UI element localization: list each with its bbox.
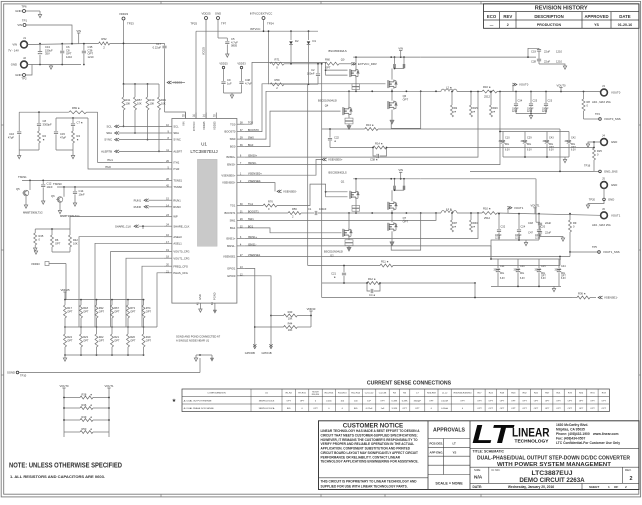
bootstrap capacitors xyxy=(394,179,396,190)
svg-text:0.001: 0.001 xyxy=(326,400,332,402)
svg-text:VERIFY PROPER AND RELIABLE OPE: VERIFY PROPER AND RELIABLE OPERATION IN … xyxy=(321,442,415,446)
diode D2 xyxy=(290,31,292,40)
svg-text:C29: C29 xyxy=(527,137,532,140)
svg-text:SDA: SDA xyxy=(173,131,179,135)
svg-text:TP1: TP1 xyxy=(22,19,28,23)
svg-text:R8: R8 xyxy=(587,100,591,104)
svg-text:C43: C43 xyxy=(549,137,554,140)
svg-text:GPIO0B: GPIO0B xyxy=(245,351,255,355)
ground xyxy=(226,54,229,57)
svg-text:BOOST0: BOOST0 xyxy=(224,130,235,134)
svg-text:TP24: TP24 xyxy=(267,22,274,26)
svg-text:OPT: OPT xyxy=(556,400,561,402)
capacitor C17 0.22uF xyxy=(164,43,166,45)
svg-text:OPT: OPT xyxy=(130,339,136,343)
svg-text:CIRCUIT BOARD LAYOUT MAY SIGNI: CIRCUIT BOARD LAYOUT MAY SIGNIFICANTLY A… xyxy=(321,451,419,455)
wire VIN rail to input caps xyxy=(421,56,536,58)
VDD33 stub xyxy=(310,316,312,328)
svg-text:Fax: (408)434-0507: Fax: (408)434-0507 xyxy=(556,436,585,440)
svg-text:VIN: VIN xyxy=(182,121,186,125)
capacitor C5 4.7uF 0805 xyxy=(226,38,228,41)
pullup rail wire xyxy=(124,83,160,85)
svg-text:6.3V: 6.3V xyxy=(500,278,505,280)
svg-text:2512: 2512 xyxy=(484,95,490,99)
wire xyxy=(457,212,482,214)
svg-text:C38 ★: C38 ★ xyxy=(370,158,379,162)
svg-text:OPT: OPT xyxy=(83,310,89,314)
resistor R17 OPT xyxy=(64,300,66,305)
svg-text:VOUT1: VOUT1 xyxy=(531,204,540,208)
svg-text:C4 ★: C4 ★ xyxy=(369,293,376,297)
svg-text:R67: R67 xyxy=(114,306,119,310)
svg-text:A SINGLE NODE NEAR U1: A SINGLE NODE NEAR U1 xyxy=(176,339,210,343)
net EXTVCC_DRV xyxy=(351,62,356,65)
svg-text:PGND: PGND xyxy=(212,292,216,300)
svg-text:VOUT0: VOUT0 xyxy=(519,83,529,87)
svg-text:VOUT1: VOUT1 xyxy=(611,214,621,218)
wire VSENSE1- line xyxy=(322,297,572,299)
svg-text:TSNS0: TSNS0 xyxy=(173,185,182,189)
wire xyxy=(457,91,482,93)
svg-text:R7,R15: R7,R15 xyxy=(298,393,306,395)
svg-text:R10 ★: R10 ★ xyxy=(483,206,492,210)
ground xyxy=(525,240,527,243)
svg-text:3887EUJ#10CA: 3887EUJ#10CA xyxy=(259,407,275,410)
wire GPIO1 xyxy=(245,268,255,346)
svg-text:10K: 10K xyxy=(288,317,293,321)
svg-text:C21,C22: C21,C22 xyxy=(365,393,374,395)
svg-text:R12 ★: R12 ★ xyxy=(368,277,377,281)
VIN rail wire xyxy=(27,43,98,44)
svg-text:0.18uH: 0.18uH xyxy=(441,408,448,410)
ground xyxy=(588,142,601,144)
svg-text:3887EUJ#10C8: 3887EUJ#10C8 xyxy=(259,400,275,402)
capacitor C20 100uF 1210 xyxy=(538,214,540,229)
I2C bus wires SCL SDA SYNC ALERT xyxy=(115,125,120,128)
resistor R71 0 xyxy=(268,31,270,84)
svg-text:330uF: 330uF xyxy=(543,141,550,143)
svg-text:INTVCC: INTVCC xyxy=(250,27,260,31)
test point TP20 GND xyxy=(603,188,605,198)
capacitor C29 330uF 6.3V xyxy=(524,132,526,141)
svg-text:C23: C23 xyxy=(548,100,553,103)
svg-text:J6: J6 xyxy=(602,207,605,211)
svg-text:RUN1: RUN1 xyxy=(173,198,181,202)
ground xyxy=(391,231,393,242)
net VOUT1 arrow xyxy=(507,208,509,214)
resistor R73 OPT xyxy=(127,300,129,305)
svg-text:VOUT1_SNS: VOUT1_SNS xyxy=(603,250,620,254)
svg-text:C22: C22 xyxy=(334,136,339,140)
capacitor C4 parallel xyxy=(367,283,370,291)
svg-text:10K: 10K xyxy=(73,241,78,245)
svg-text:6.3V: 6.3V xyxy=(505,149,510,151)
resistor R52 2 xyxy=(99,42,110,45)
wire xyxy=(391,89,393,101)
svg-text:APP ENG.: APP ENG. xyxy=(430,450,444,454)
capacitor C6 C8 OPT 1210 xyxy=(61,44,63,51)
svg-text:OPT: OPT xyxy=(511,408,516,410)
connector J6 VOUT1 xyxy=(601,212,608,219)
svg-text:1210: 1210 xyxy=(556,50,562,54)
svg-text:OPT: OPT xyxy=(511,400,516,402)
svg-text:R41: R41 xyxy=(126,98,131,102)
ground xyxy=(539,64,565,66)
transistor Q7 OPT xyxy=(388,222,397,231)
svg-text:VSENSE0-: VSENSE0- xyxy=(283,190,297,194)
svg-text:★: ★ xyxy=(172,398,177,404)
svg-text:R10,R16: R10,R16 xyxy=(325,393,334,395)
svg-text:R44: R44 xyxy=(288,322,293,326)
VOUT0 stub bottom xyxy=(62,387,65,389)
svg-text:1210: 1210 xyxy=(527,111,533,113)
svg-text:OPT: OPT xyxy=(146,310,152,314)
capacitor C2 100nF xyxy=(317,64,319,73)
svg-text:10K: 10K xyxy=(150,102,155,106)
resistor R23 OPT xyxy=(80,327,82,334)
svg-text:VOUT1: VOUT1 xyxy=(105,384,114,388)
resistor R50 xyxy=(64,431,80,433)
transistor Q3 phase 0 xyxy=(388,80,397,89)
wire mid rail xyxy=(65,326,157,328)
test point TP5 VOUT1_SNS xyxy=(570,251,598,253)
svg-text:0.22uF: 0.22uF xyxy=(366,408,373,410)
svg-text:C10: C10 xyxy=(505,137,510,140)
svg-text:OPT: OPT xyxy=(67,339,73,343)
svg-text:-B: DUAL PHASE DCR SENSE: -B: DUAL PHASE DCR SENSE xyxy=(183,407,214,410)
net SHARE_CLK xyxy=(134,225,139,228)
svg-text:VDD33: VDD33 xyxy=(237,62,246,66)
net GPIO1B xyxy=(270,344,273,349)
resistor R4 xyxy=(72,131,75,143)
svg-text:C1: C1 xyxy=(308,207,312,211)
net VOUT0 arrow xyxy=(512,85,514,92)
zone ticks xyxy=(160,1,162,4)
svg-text:—: — xyxy=(490,23,494,27)
svg-text:SYNC: SYNC xyxy=(173,138,181,142)
svg-text:R13 ★: R13 ★ xyxy=(366,123,375,127)
svg-text:VSENSE0+: VSENSE0+ xyxy=(221,173,235,177)
svg-text:TP2: TP2 xyxy=(21,77,27,81)
svg-text:D0L: D0L xyxy=(505,144,510,146)
svg-text:Q2: Q2 xyxy=(330,254,334,258)
svg-text:R57: R57 xyxy=(137,98,142,102)
wire vertical bus xyxy=(321,64,323,298)
svg-text:OPT: OPT xyxy=(130,310,136,314)
svg-text:-A: DUAL OUTPUT RSENSE: -A: DUAL OUTPUT RSENSE xyxy=(183,399,212,402)
wire BOOST0 xyxy=(245,84,386,132)
svg-text:22uF: 22uF xyxy=(544,60,550,64)
svg-text:BSC010N04LSI: BSC010N04LSI xyxy=(324,250,343,254)
svg-text:N/A: N/A xyxy=(474,475,483,481)
svg-text:WP: WP xyxy=(173,215,178,219)
resistor R43 10K xyxy=(270,315,272,317)
svg-text:INTVCC/EXTVCC: INTVCC/EXTVCC xyxy=(250,12,273,16)
svg-text:2: 2 xyxy=(630,476,633,482)
svg-text:ADJ., MAX 25A: ADJ., MAX 25A xyxy=(592,223,611,227)
svg-text:OPT: OPT xyxy=(522,408,527,410)
svg-text:1nF: 1nF xyxy=(367,400,371,402)
resistor R16 2512 xyxy=(482,90,497,93)
svg-text:D2: D2 xyxy=(295,39,299,43)
ground xyxy=(64,355,66,358)
wire xyxy=(516,113,546,115)
svg-text:R60: R60 xyxy=(325,58,330,62)
resistor R59 2 xyxy=(270,83,284,86)
capacitor C8 3300pF xyxy=(38,112,40,123)
svg-text:GND: GND xyxy=(608,198,614,202)
svg-text:GND: GND xyxy=(198,294,202,300)
resistor R45 0 xyxy=(34,229,36,233)
svg-text:R71: R71 xyxy=(275,58,280,62)
wire ground loop xyxy=(391,91,421,128)
compensation rail wire xyxy=(19,111,69,113)
svg-text:BSC010N04LSI: BSC010N04LSI xyxy=(318,99,337,103)
svg-text:0.22uH: 0.22uH xyxy=(441,400,448,402)
capacitor C1 100nF xyxy=(314,211,316,215)
svg-text:C24: C24 xyxy=(521,226,526,229)
wire xyxy=(348,116,350,119)
capacitor C44 330uF 6.3V xyxy=(558,259,560,269)
svg-text:L1,L2: L1,L2 xyxy=(442,393,448,395)
svg-text:VDD33: VDD33 xyxy=(212,121,216,130)
svg-text:D0L: D0L xyxy=(500,273,505,275)
ground pair xyxy=(194,358,197,361)
svg-text:0805: 0805 xyxy=(231,44,237,48)
svg-text:SHARE_CLK: SHARE_CLK xyxy=(115,224,131,228)
svg-text:R69 ★: R69 ★ xyxy=(72,106,81,110)
resistor R36 xyxy=(577,296,590,299)
resistor R74 OPT xyxy=(143,300,145,305)
svg-text:330uF: 330uF xyxy=(514,269,521,271)
bulk capacitor bank phase0 xyxy=(500,92,503,132)
VIN stub xyxy=(400,172,402,179)
svg-text:1uF: 1uF xyxy=(381,408,385,410)
svg-text:YS: YS xyxy=(594,23,599,27)
svg-text:ITH1: ITH1 xyxy=(107,158,113,162)
svg-text:OPT: OPT xyxy=(55,241,61,245)
wire ground loop xyxy=(391,213,421,250)
transistor Q3 phase 1 xyxy=(388,201,397,210)
ground xyxy=(391,110,393,121)
svg-text:VOUT1_CFG: VOUT1_CFG xyxy=(173,256,189,260)
svg-text:J5: J5 xyxy=(602,177,605,181)
wire drain rail xyxy=(353,178,421,180)
svg-text:22uF: 22uF xyxy=(545,231,551,235)
svg-text:R39: R39 xyxy=(161,98,166,102)
svg-text:SDA: SDA xyxy=(106,131,112,135)
resistor R32 OPT xyxy=(96,300,98,305)
svg-text:FREQ_CFG: FREQ_CFG xyxy=(173,264,188,268)
svg-text:10K: 10K xyxy=(137,102,142,106)
svg-text:47pF: 47pF xyxy=(8,135,14,139)
VIN stub xyxy=(78,33,80,43)
VDD33 connector xyxy=(34,251,37,254)
VIN stub xyxy=(400,51,402,58)
svg-text:OPT: OPT xyxy=(602,408,607,410)
svg-text:ALERTB: ALERTB xyxy=(101,150,112,154)
test point TP2 xyxy=(23,74,26,77)
svg-text:1630 McCarthy Blvd.: 1630 McCarthy Blvd. xyxy=(556,423,588,427)
capacitor C38 parallel xyxy=(373,148,376,157)
wire GPIO0 xyxy=(245,276,271,346)
svg-text:GPIO1B: GPIO1B xyxy=(261,351,271,355)
svg-text:RUN0: RUN0 xyxy=(134,205,142,209)
wire xyxy=(26,25,72,43)
capacitor C21 xyxy=(343,266,345,273)
capacitor C19 22uF 1210 xyxy=(528,48,539,57)
svg-text:GND_SNS: GND_SNS xyxy=(604,170,618,174)
svg-text:U1: U1 xyxy=(201,142,207,147)
svg-text:330uF: 330uF xyxy=(565,141,572,143)
svg-text:LINEAR TECHNOLOGY HAS MADE A B: LINEAR TECHNOLOGY HAS MADE A BEST EFFORT… xyxy=(321,429,421,433)
svg-text:OPT: OPT xyxy=(590,400,595,402)
svg-text:SCL: SCL xyxy=(173,125,179,129)
svg-text:ISNS0+: ISNS0+ xyxy=(226,155,236,159)
svg-text:C34: C34 xyxy=(518,100,523,103)
svg-text:22uF: 22uF xyxy=(544,50,550,54)
svg-text:Wednesday, January 20, 2016: Wednesday, January 20, 2016 xyxy=(508,485,554,489)
svg-text:J4: J4 xyxy=(602,134,605,138)
resistor R57 10K xyxy=(134,84,136,97)
svg-text:OPT: OPT xyxy=(83,339,89,343)
svg-text:REVISION HISTORY: REVISION HISTORY xyxy=(535,6,588,12)
connector J5 GND xyxy=(601,182,608,189)
connector J1 VIN xyxy=(21,41,28,48)
svg-text:OPT: OPT xyxy=(489,408,494,410)
wire xyxy=(56,149,73,151)
svg-text:VIN: VIN xyxy=(17,23,22,27)
resistor R9 0 xyxy=(569,214,571,220)
VDD25 bypass node xyxy=(222,66,224,68)
svg-text:RUN1: RUN1 xyxy=(134,198,142,202)
svg-text:THIS CIRCUIT IS PROPRIETARY TO: THIS CIRCUIT IS PROPRIETARY TO LINEAR TE… xyxy=(321,480,418,484)
title block frame xyxy=(319,421,640,490)
transistor Q5 MMBT3906LT1G xyxy=(23,190,29,196)
ground xyxy=(348,246,350,248)
wire xyxy=(35,228,70,230)
svg-text:DATE:: DATE: xyxy=(473,485,483,489)
svg-text:OPT: OPT xyxy=(403,219,409,223)
svg-text:6.3V: 6.3V xyxy=(541,278,546,280)
svg-text:DESCRIPTION: DESCRIPTION xyxy=(534,14,563,19)
svg-text:OPT: OPT xyxy=(590,408,595,410)
test point VDD25 TP25 xyxy=(205,17,208,20)
connector J4 GND xyxy=(601,139,608,146)
svg-text:Milpitas, CA 95035: Milpitas, CA 95035 xyxy=(556,427,585,431)
svg-text:SGND: SGND xyxy=(7,371,15,375)
svg-text:2512: 2512 xyxy=(484,216,490,220)
svg-text:LTC3887EUJ: LTC3887EUJ xyxy=(190,149,217,154)
svg-text:LTC3887EUJ: LTC3887EUJ xyxy=(531,470,572,477)
svg-text:TECHNOLOGY APPLICATIONS ENGINE: TECHNOLOGY APPLICATIONS ENGINEERING FOR … xyxy=(321,460,419,464)
svg-text:TP7: TP7 xyxy=(221,22,227,26)
connector J2 GND xyxy=(21,61,28,68)
svg-text:6.49K: 6.49K xyxy=(402,400,408,402)
svg-text:R36 ★: R36 ★ xyxy=(578,292,587,296)
svg-text:GND: GND xyxy=(11,63,17,67)
svg-text:VOUT1: VOUT1 xyxy=(514,206,524,210)
svg-text:OPT: OPT xyxy=(500,408,505,410)
svg-text:VSENSE1-: VSENSE1- xyxy=(604,296,618,300)
svg-text:100nF: 100nF xyxy=(307,71,315,75)
configuration table xyxy=(182,389,609,412)
svg-text:R74: R74 xyxy=(146,306,151,310)
svg-text:SIZE: SIZE xyxy=(474,468,480,472)
svg-text:1210: 1210 xyxy=(66,55,72,59)
svg-text:ASEL1: ASEL1 xyxy=(173,241,182,245)
svg-text:7V - 14V: 7V - 14V xyxy=(8,49,19,53)
capacitor C23 100uF 1210 xyxy=(545,92,547,104)
resistor R40 10K xyxy=(147,84,149,97)
wire ITH1 xyxy=(98,112,164,162)
svg-text:100nF: 100nF xyxy=(319,207,327,211)
svg-text:ISNS0-: ISNS0- xyxy=(227,163,236,167)
svg-text:0.22uF: 0.22uF xyxy=(153,45,162,49)
svg-text:ITH0: ITH0 xyxy=(105,165,111,169)
ground xyxy=(588,201,604,205)
svg-text:R43: R43 xyxy=(288,310,293,314)
svg-text:TP16: TP16 xyxy=(584,164,591,168)
svg-text:BG0: BG0 xyxy=(230,145,236,149)
svg-text:OPT: OPT xyxy=(545,400,550,402)
svg-text:VDD25: VDD25 xyxy=(201,12,210,16)
ground xyxy=(34,248,37,251)
svg-text:RUN0: RUN0 xyxy=(173,205,181,209)
svg-text:2: 2 xyxy=(625,485,627,489)
svg-text:330uF: 330uF xyxy=(521,141,528,143)
svg-text:R38,R46,R48,R50: R38,R46,R48,R50 xyxy=(454,393,473,395)
svg-text:C28: C28 xyxy=(531,60,536,64)
svg-text:L1 ★: L1 ★ xyxy=(446,207,453,211)
sense resistor divider R2 R15 R29 xyxy=(451,92,453,106)
test point TP4 VOUT0_SNS xyxy=(584,118,599,120)
svg-text:OPT: OPT xyxy=(460,400,465,402)
wire SW0 to SW bus xyxy=(245,91,346,139)
svg-text:DUAL-PHASE/DUAL OUTPUT STEP-DO: DUAL-PHASE/DUAL OUTPUT STEP-DOWN DC/DC C… xyxy=(477,455,630,461)
wire to U1 VIN pin xyxy=(165,112,186,119)
svg-text:R49: R49 xyxy=(82,415,87,419)
inductor L2 xyxy=(441,89,457,91)
svg-text:TITLE: SCHEMATIC: TITLE: SCHEMATIC xyxy=(473,450,505,454)
svg-text:DATE: DATE xyxy=(619,14,631,19)
svg-text:R12,R14: R12,R14 xyxy=(351,393,360,395)
svg-text:OPT: OPT xyxy=(545,408,550,410)
svg-text:SHARE_CLK: SHARE_CLK xyxy=(173,224,189,228)
svg-text:1210: 1210 xyxy=(512,111,518,113)
svg-text:OPT: OPT xyxy=(477,408,482,410)
svg-text:OPT: OPT xyxy=(99,310,105,314)
resistor R69 xyxy=(69,111,87,114)
svg-text:SHEET: SHEET xyxy=(589,485,599,489)
svg-text:TP23: TP23 xyxy=(127,22,134,26)
wire xyxy=(503,156,569,158)
svg-text:TP6: TP6 xyxy=(21,5,27,9)
svg-text:TECHNOLOGY: TECHNOLOGY xyxy=(515,439,549,444)
svg-text:SUPPLIED FOR USE WITH LINEAR T: SUPPLIED FOR USE WITH LINEAR TECHNOLOGY … xyxy=(321,484,408,488)
svg-text:ISNS1-: ISNS1- xyxy=(227,244,236,248)
svg-text:R14 ★: R14 ★ xyxy=(375,142,384,146)
svg-text:10K: 10K xyxy=(161,102,166,106)
svg-text:NOTE: UNLESS OTHERWISE SPECIFI: NOTE: UNLESS OTHERWISE SPECIFIED xyxy=(9,461,123,470)
net VSENSE0+ xyxy=(245,160,322,176)
svg-text:10K: 10K xyxy=(288,328,293,332)
svg-text:R21: R21 xyxy=(114,335,119,339)
ground xyxy=(24,205,27,208)
ground xyxy=(348,124,350,126)
bulk capacitor bank phase1 xyxy=(491,240,499,259)
svg-text:C4,C38: C4,C38 xyxy=(379,393,387,395)
